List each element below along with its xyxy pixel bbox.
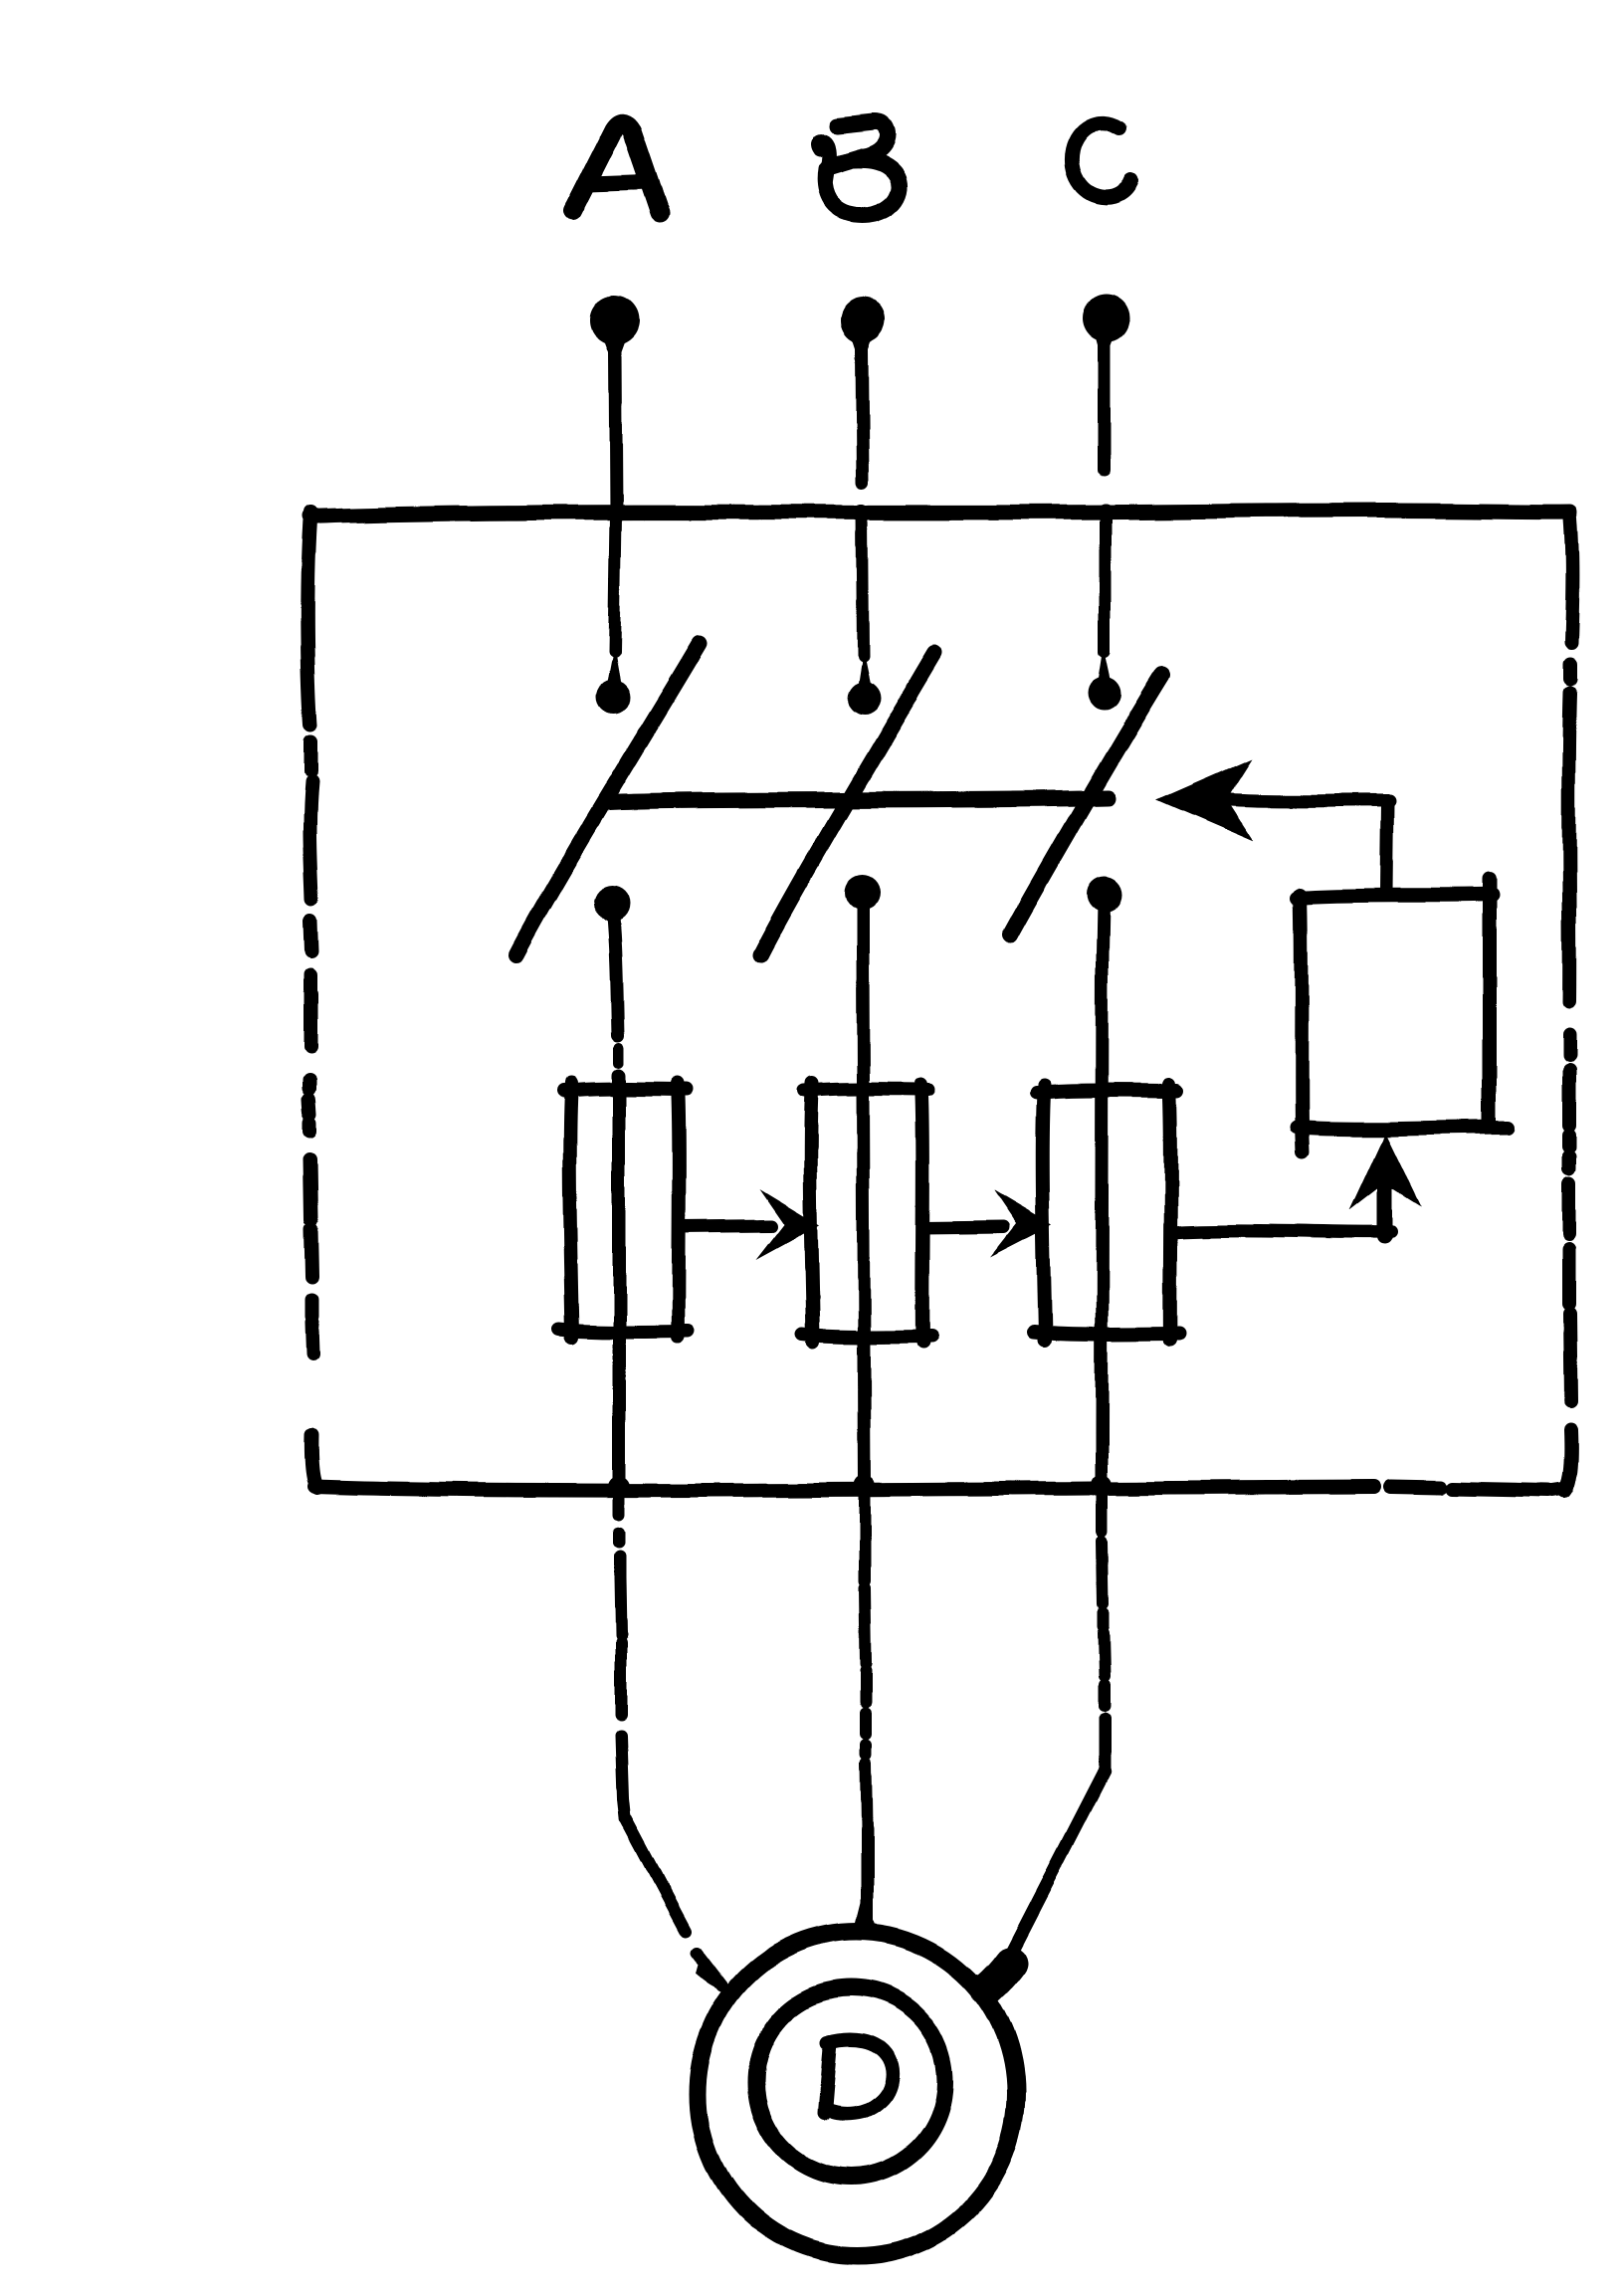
node label C bbox=[1072, 122, 1130, 197]
enclosure box right edge (dash-dot) bbox=[1564, 512, 1572, 1492]
wire from terminal C bbox=[1099, 344, 1112, 470]
fixed contact dot C upper bbox=[1088, 647, 1121, 711]
fixed contact dot A lower bbox=[594, 886, 630, 922]
wire OL2 to OL3 with arrow bbox=[922, 1190, 1052, 1257]
enclosure box top edge bbox=[309, 511, 1570, 517]
coil / operating element bbox=[1297, 880, 1509, 1152]
trip bar actuating arrow bbox=[1156, 758, 1389, 894]
linkage up arrow to coil bbox=[1349, 1133, 1421, 1237]
wire from terminal A bbox=[615, 350, 616, 516]
wire B below box (dashed) bbox=[865, 1492, 867, 1929]
motor label D bbox=[825, 2039, 893, 2115]
overload heater OL3 bbox=[1034, 1085, 1179, 1340]
phase line B through heater bbox=[863, 950, 865, 1488]
switch blade C bbox=[1010, 674, 1162, 935]
switch blade A bbox=[516, 644, 700, 954]
node label B bbox=[818, 122, 902, 216]
junction blobs on box edges bbox=[607, 504, 1114, 1498]
phase line A through heater bbox=[613, 1075, 626, 1489]
terminal dot C bbox=[1083, 294, 1130, 364]
wire A below box (dashed) bbox=[619, 1498, 722, 1986]
wire C lower-dot tail bbox=[1103, 903, 1104, 953]
overload heater OL1 bbox=[559, 1083, 689, 1338]
wire C below box (dashed) bbox=[996, 1494, 1105, 1981]
fixed contact dot B lower bbox=[845, 875, 881, 911]
fixed contact dot C lower bbox=[1087, 877, 1122, 913]
wire OL1 to OL2 with arrow bbox=[679, 1188, 820, 1260]
wire OL3 to linkage bbox=[1170, 1230, 1391, 1232]
motor inner circle bbox=[756, 1987, 945, 2177]
enclosure box bottom edge bbox=[315, 1487, 1566, 1491]
terminal dot A bbox=[590, 296, 640, 370]
motor junction fillets bbox=[697, 1891, 878, 1993]
fixed contact dot B upper bbox=[847, 649, 881, 714]
node label A bbox=[573, 122, 660, 212]
switch blade B bbox=[761, 653, 935, 954]
motor junction fillet arc (right) bbox=[987, 1963, 1011, 1988]
wire from terminal B bbox=[862, 348, 863, 482]
enclosure box left edge (dash-dot) bbox=[307, 513, 318, 1488]
terminal dot B bbox=[840, 298, 886, 368]
motor outer circle bbox=[698, 1932, 1016, 2256]
fixed contact dot A upper bbox=[596, 647, 630, 715]
trip bar bbox=[609, 798, 1108, 803]
wire B lower-dot tail bbox=[857, 901, 870, 950]
wire A lower-dot tail bbox=[613, 911, 618, 1035]
overload heater OL2 bbox=[802, 1084, 931, 1343]
phase line C through heater bbox=[1102, 953, 1103, 1487]
